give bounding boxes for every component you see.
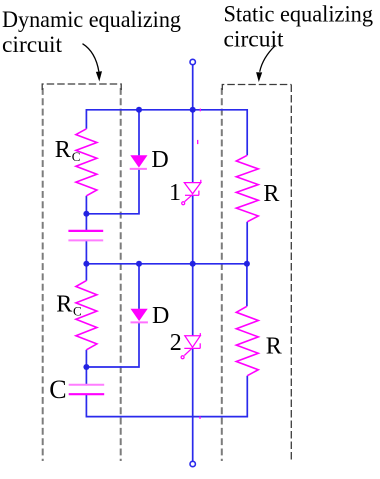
svg-text:C: C [72, 149, 81, 164]
resistor R2 [236, 306, 258, 375]
junction node dots [83, 107, 250, 370]
diode D1 [130, 155, 148, 169]
capacitor (upper, unlabeled) [68, 231, 103, 241]
wire: middle rail [86, 263, 247, 265]
node: middle rail / D2 [136, 261, 142, 267]
label: Static equalizing circuit [224, 1, 374, 52]
thyristor U2 [181, 333, 200, 359]
label RC2 [56, 291, 81, 318]
wire: bottom rail with cap2 and R2 leads [86, 376, 247, 417]
label: Dynamic equalizing circuit [2, 7, 181, 58]
svg-text:C: C [73, 304, 82, 319]
wire: RC2 bottom to cap2 [85, 350, 87, 385]
node: top rail / D1 [136, 107, 142, 113]
wire: node RC1/cap1 to D1 cathode [86, 169, 139, 214]
label RC1 [55, 137, 81, 164]
diode D2 [131, 309, 148, 323]
leader arrow to dynamic box [83, 44, 103, 82]
svg-text:R: R [56, 291, 72, 317]
wire: RC1 bottom to cap1 [85, 196, 87, 231]
wire: center vertical bottom segment [192, 349, 194, 462]
dashed box: dynamic equalizing circuit [42, 84, 121, 461]
svg-text:D: D [151, 147, 168, 173]
dashed box: static equalizing circuit [222, 85, 291, 462]
stray gate tick upper-middle [197, 140, 199, 144]
wire: top rail with RC1 and R1 leads [86, 110, 247, 156]
svg-text:circuit: circuit [224, 26, 284, 52]
terminal: top [190, 59, 195, 64]
node: RC1-cap1 [83, 211, 89, 217]
svg-text:R: R [55, 137, 71, 163]
node: middle rail / R [244, 261, 250, 267]
svg-text:R: R [263, 181, 279, 207]
wire: cap1 bottom to middle rail [85, 241, 87, 281]
node: middle rail left [83, 261, 89, 267]
stray gate tick bottom [199, 416, 201, 419]
resistor R1 [236, 155, 258, 222]
svg-text:Static equalizing: Static equalizing [224, 1, 374, 27]
node: RC2-cap2 [83, 364, 89, 370]
capacitor C [69, 385, 105, 395]
svg-text:D: D [152, 303, 169, 329]
thyristor U1 [182, 180, 201, 205]
wire: R1 bottom lead [246, 222, 248, 264]
wire: D1 anode lead [138, 110, 140, 156]
wire: node RC2/cap2 to D2 cathode [86, 323, 139, 367]
svg-text:circuit: circuit [2, 32, 62, 58]
svg-text:R: R [266, 333, 282, 359]
svg-text:2: 2 [170, 330, 182, 356]
wire: R2 top lead [246, 264, 248, 307]
stray gate tick top [199, 109, 201, 112]
resistor RC1 [76, 129, 97, 196]
terminal: bottom [190, 461, 195, 466]
svg-text:1: 1 [169, 180, 181, 206]
svg-text:Dynamic equalizing: Dynamic equalizing [2, 7, 181, 33]
node: middle rail / center [190, 261, 196, 267]
svg-text:C: C [49, 375, 66, 404]
resistor RC2 [76, 281, 97, 350]
leader arrow to static box [256, 45, 275, 82]
wire: center vertical middle segment [192, 195, 194, 335]
node: top rail / center [190, 107, 196, 113]
wire: center vertical top segment [192, 65, 194, 183]
wire: D2 anode lead [138, 264, 140, 309]
